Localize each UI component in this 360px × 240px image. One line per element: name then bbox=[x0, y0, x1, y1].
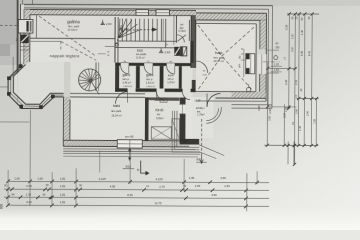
dim right connectors bbox=[268, 67, 297, 69]
wall bay window inner bbox=[13, 64, 63, 104]
window top wall 1 bbox=[136, 10, 149, 16]
flue box pair bbox=[174, 47, 180, 56]
erkely rounded corner bbox=[206, 107, 221, 123]
door halo big bbox=[196, 61, 208, 73]
chimney block bbox=[18, 19, 33, 33]
wall bay window outer bbox=[8, 66, 64, 108]
level mark 1 bbox=[101, 20, 105, 25]
dim row1 line bbox=[8, 181, 269, 182]
wire void dashed diagonal 2 bbox=[61, 41, 97, 60]
shower bbox=[172, 119, 180, 140]
wall south band bbox=[70, 140, 118, 146]
left scan edge bbox=[0, 0, 17, 45]
wire terrace lines bbox=[63, 150, 200, 153]
wire right eaves lines bbox=[267, 9, 269, 104]
room interior fills bbox=[30, 15, 196, 62]
door gard1 top bbox=[121, 66, 129, 74]
stair treads bbox=[122, 19, 161, 42]
wire top second line bbox=[21, 8, 269, 9]
wall right exterior bbox=[260, 20, 267, 49]
wire gallery edge bbox=[35, 15, 37, 38]
window right wall pm90 bbox=[246, 54, 255, 74]
wall top-right band bbox=[196, 13, 267, 20]
wall gard row bottom bbox=[115, 88, 128, 91]
wall halo-furdo divider bbox=[145, 97, 149, 140]
level mark 2 bbox=[119, 25, 123, 30]
top edge shade bbox=[0, 0, 360, 6]
furdo tiny label bbox=[160, 98, 167, 102]
dim right bottom verticals bbox=[287, 141, 289, 164]
wire dashed left bbox=[0, 24, 19, 26]
window bay mullions bbox=[19, 64, 23, 68]
door gard1-halo bbox=[116, 92, 128, 104]
door wc arc bbox=[177, 35, 185, 43]
scan smudge bottom-left bbox=[0, 204, 3, 209]
door kozl2-erkely bbox=[183, 92, 191, 100]
wire top eaves line bbox=[21, 4, 273, 5]
wire halo right ext bbox=[266, 49, 278, 51]
dim right verticals bbox=[288, 14, 290, 108]
stair winders bbox=[119, 19, 141, 38]
wall furdo top bbox=[149, 97, 180, 100]
dim row2 line bbox=[4, 189, 269, 190]
wire void dashed diagonal bbox=[39, 16, 97, 56]
erkely steps bbox=[177, 111, 200, 147]
stair top landing wall bbox=[165, 19, 167, 48]
wall top-left band bbox=[20, 10, 196, 16]
wall halo bottom band bbox=[232, 92, 266, 99]
dim right top connector bbox=[287, 13, 319, 15]
furdo east wall gap bbox=[179, 104, 185, 114]
wall void east bbox=[95, 62, 97, 90]
stair left rail bbox=[114, 17, 116, 62]
wall left exterior bbox=[20, 4, 24, 62]
wall furdo east bbox=[180, 98, 186, 143]
wire dim extensions bbox=[7, 170, 9, 206]
dim row4 line bbox=[8, 205, 269, 206]
wall left cross lines bbox=[20, 46, 29, 48]
door erkely arc bbox=[207, 93, 220, 106]
wall gard divider 2 bbox=[160, 66, 164, 89]
wall gard row top bbox=[115, 63, 121, 66]
wire halo roof dashes bbox=[198, 25, 222, 56]
stair stringer bbox=[118, 40, 176, 42]
door gard2-furdo bbox=[157, 92, 165, 100]
window pm90 south bbox=[117, 140, 142, 148]
node circle halo bbox=[246, 87, 250, 91]
wall gard divider 1 bbox=[136, 66, 140, 89]
chimney top stub bbox=[22, 0, 24, 4]
spiral stair bbox=[79, 69, 101, 91]
door kozl top bbox=[167, 66, 175, 74]
window bay glazing bbox=[11, 65, 64, 106]
wall erkely parapet bbox=[180, 139, 200, 145]
window top wall 2 bbox=[156, 10, 170, 16]
dim right ticks bbox=[266, 12, 319, 166]
bathtub bbox=[151, 127, 171, 140]
stair landing line bbox=[115, 46, 176, 48]
wall stair east / wc block bbox=[191, 16, 196, 68]
wall halo-left west bbox=[63, 97, 70, 146]
door gard2 top bbox=[144, 66, 153, 75]
level mark 3 bbox=[159, 48, 163, 53]
wall common top halo row bbox=[70, 92, 145, 94]
wall gard1 west bbox=[115, 63, 119, 92]
wall gard divider 3 bbox=[179, 66, 182, 89]
stair walk line bbox=[117, 29, 157, 44]
dim row ticks bbox=[6, 179, 259, 208]
flue symbol bbox=[21, 35, 29, 44]
dim row3 line bbox=[4, 197, 269, 198]
wire left ext lines bbox=[0, 86, 8, 88]
wall wc sides bbox=[175, 16, 177, 43]
section mark b2 bbox=[201, 119, 203, 154]
